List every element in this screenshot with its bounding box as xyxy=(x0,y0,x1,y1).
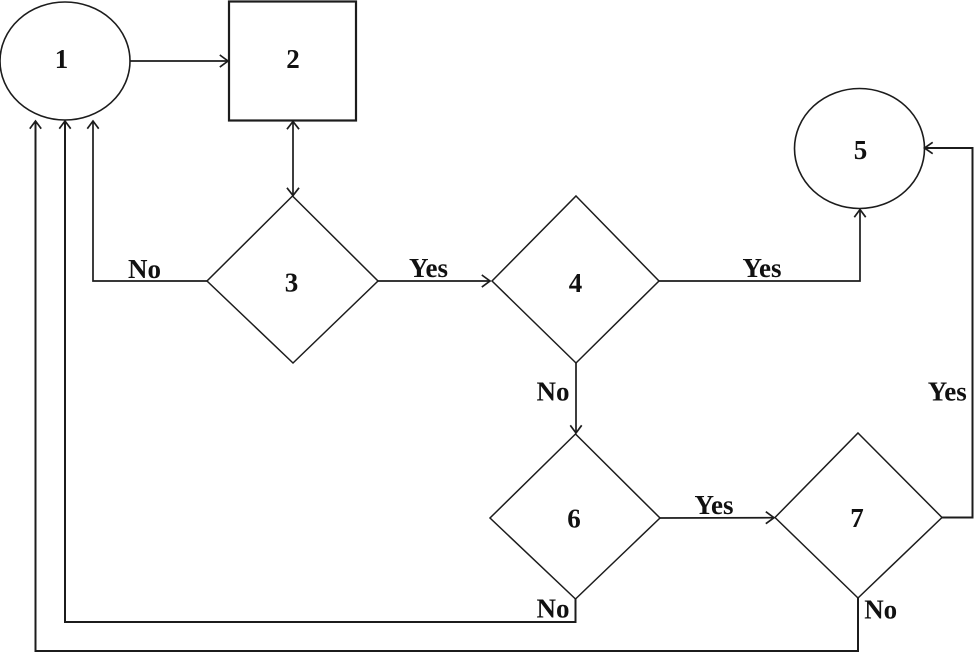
wire Yes from 6 to 7 xyxy=(660,517,774,519)
wire Yes from 4 to 5 xyxy=(659,210,860,281)
process box 2 xyxy=(229,2,356,121)
arrowhead into 2 left xyxy=(221,56,229,67)
wire 2 to 3 double arrow xyxy=(292,122,294,195)
svg-text:4: 4 xyxy=(569,268,583,298)
arrowhead into 4 left xyxy=(483,276,491,287)
svg-text:No: No xyxy=(537,594,570,624)
wire Yes from 7 to 5 xyxy=(926,148,973,518)
wire No from 3 to 1 xyxy=(93,122,207,281)
wire Yes from 3 to 4 xyxy=(378,280,490,282)
circle node 1 xyxy=(0,2,130,120)
svg-text:Yes: Yes xyxy=(695,490,734,520)
arrowhead into 2 bottom xyxy=(288,122,299,129)
svg-text:7: 7 xyxy=(850,503,864,533)
decision diamond 4 xyxy=(492,196,659,363)
arrowhead into 7 left xyxy=(767,512,775,523)
svg-text:2: 2 xyxy=(286,44,300,74)
wire No from 4 to 6 xyxy=(575,363,577,433)
svg-text:No: No xyxy=(537,377,570,407)
svg-text:No: No xyxy=(128,254,161,284)
circle node 5 xyxy=(795,89,925,209)
svg-text:No: No xyxy=(864,595,897,625)
arrowhead into 1 bottom from 3 xyxy=(88,121,98,128)
decision diamond 6 xyxy=(490,434,660,599)
arrowhead into 6 top xyxy=(571,426,581,433)
wire No from 7 to 1 xyxy=(36,122,859,651)
wire No from 6 to 1 xyxy=(65,122,576,622)
svg-text:Yes: Yes xyxy=(928,377,967,407)
decision diamond 7 xyxy=(775,433,942,598)
svg-text:5: 5 xyxy=(854,135,868,165)
svg-text:Yes: Yes xyxy=(409,253,448,283)
arrowhead into 3 top xyxy=(288,189,299,196)
svg-text:3: 3 xyxy=(285,268,299,298)
decision diamond 3 xyxy=(207,196,378,363)
svg-text:Yes: Yes xyxy=(743,253,782,283)
arrowhead into 5 right xyxy=(925,143,933,153)
wire 1 to 2 xyxy=(131,60,228,62)
arrowhead into 5 bottom xyxy=(855,210,865,217)
svg-text:1: 1 xyxy=(55,44,69,74)
svg-text:6: 6 xyxy=(567,504,581,534)
arrowhead into 1 bottom from 6 xyxy=(60,121,70,128)
arrowhead into 1 bottom from 7 xyxy=(30,121,40,128)
